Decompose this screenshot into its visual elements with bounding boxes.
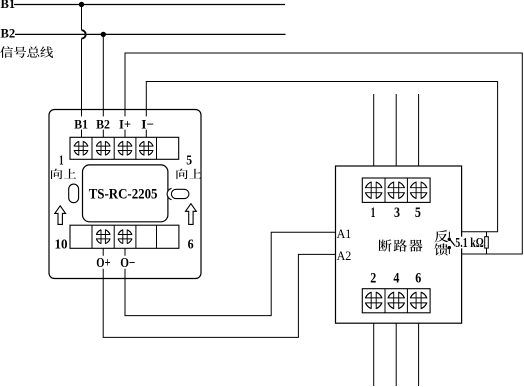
wire hop arc over B2 <box>82 30 86 38</box>
svg-text:6: 6 <box>415 271 421 287</box>
wire breaker pin5 up <box>418 94 420 182</box>
screw 1 <box>364 181 383 200</box>
label 信号总线 (signal bus) <box>0 46 53 58</box>
label B1 terminal <box>73 117 89 132</box>
label B2 terminal <box>95 117 111 132</box>
switch blade <box>450 240 456 247</box>
module top terminal strip <box>70 137 179 159</box>
label 断路器 (circuit breaker) <box>379 239 423 251</box>
LED window right <box>171 189 189 198</box>
wire O+ to breaker A2 <box>103 248 335 337</box>
screw 4 <box>387 291 406 310</box>
arrow up right <box>186 204 197 225</box>
node B1 junction <box>79 2 84 7</box>
svg-text:3: 3 <box>394 205 400 221</box>
svg-text:5: 5 <box>186 153 192 168</box>
label I- terminal <box>140 117 155 132</box>
svg-text:6: 6 <box>188 236 194 251</box>
wire B1 bus <box>14 4 285 6</box>
wire breaker pin2 down <box>373 308 375 386</box>
node switch bottom contact <box>448 246 451 249</box>
breaker top terminal strip <box>362 178 430 202</box>
screw 2 <box>364 291 383 310</box>
module inner label plate <box>83 165 168 222</box>
svg-text:B2: B2 <box>96 117 110 132</box>
screw O+ <box>95 229 111 245</box>
breaker bottom terminal strip <box>362 289 430 313</box>
module TS-RC-2205 outline <box>49 110 201 279</box>
resistor wire bottom <box>486 248 488 254</box>
breaker box <box>336 166 462 323</box>
arrow up left <box>55 206 66 225</box>
svg-text:O+: O+ <box>96 256 110 271</box>
node switch top contact <box>448 238 451 241</box>
wire B1 drop to module <box>81 5 83 138</box>
label I+ terminal <box>118 117 132 132</box>
wire B2 drop to module <box>102 34 104 137</box>
svg-text:TS-RC-2205: TS-RC-2205 <box>89 186 158 202</box>
wire B2 bus <box>15 33 286 35</box>
feedback switch stub top <box>448 232 450 238</box>
screw 6 <box>409 291 428 310</box>
screw I+ <box>117 140 133 156</box>
svg-text:B1: B1 <box>74 117 88 132</box>
label 向上 left <box>51 169 76 179</box>
svg-text:B2: B2 <box>1 27 16 41</box>
wire breaker pin6 down <box>418 308 420 386</box>
wire breaker pin1 up <box>373 94 375 182</box>
screw 3 <box>387 181 406 200</box>
svg-text:4: 4 <box>393 271 399 287</box>
screw O- <box>117 229 133 245</box>
svg-text:A1: A1 <box>337 226 352 241</box>
screw 5 <box>409 181 428 200</box>
label 反馈 (feedback) <box>434 230 448 255</box>
wire I+ <box>125 53 522 254</box>
svg-text:10: 10 <box>55 236 69 251</box>
wire I- <box>146 82 497 232</box>
notch on plate edge <box>167 188 171 199</box>
wire O- to breaker A1 <box>125 232 336 315</box>
wire breaker pin3 up <box>395 94 397 182</box>
LED window left <box>69 184 79 203</box>
feedback switch stub bottom <box>448 249 450 254</box>
resistor wire top <box>486 232 488 237</box>
svg-text:O−: O− <box>120 256 135 271</box>
screw B2 <box>95 140 111 156</box>
node B2 junction <box>101 32 106 37</box>
svg-text:B1: B1 <box>1 0 16 11</box>
svg-text:5: 5 <box>415 205 421 221</box>
label 5.1 kOhm <box>455 235 485 250</box>
module bottom terminal strip <box>70 225 179 248</box>
label 向上 right <box>176 169 201 179</box>
screw B1 <box>73 140 89 156</box>
svg-text:I+: I+ <box>119 117 131 132</box>
svg-text:2: 2 <box>370 271 376 287</box>
wire breaker pin4 down <box>395 308 397 386</box>
svg-text:A2: A2 <box>337 248 352 263</box>
resistor 5.1k body <box>485 237 489 248</box>
svg-text:5.1 kΩ: 5.1 kΩ <box>455 235 484 250</box>
svg-text:I−: I− <box>141 117 154 132</box>
screw I- <box>138 140 154 156</box>
svg-text:1: 1 <box>371 205 376 221</box>
svg-text:1: 1 <box>59 153 64 168</box>
